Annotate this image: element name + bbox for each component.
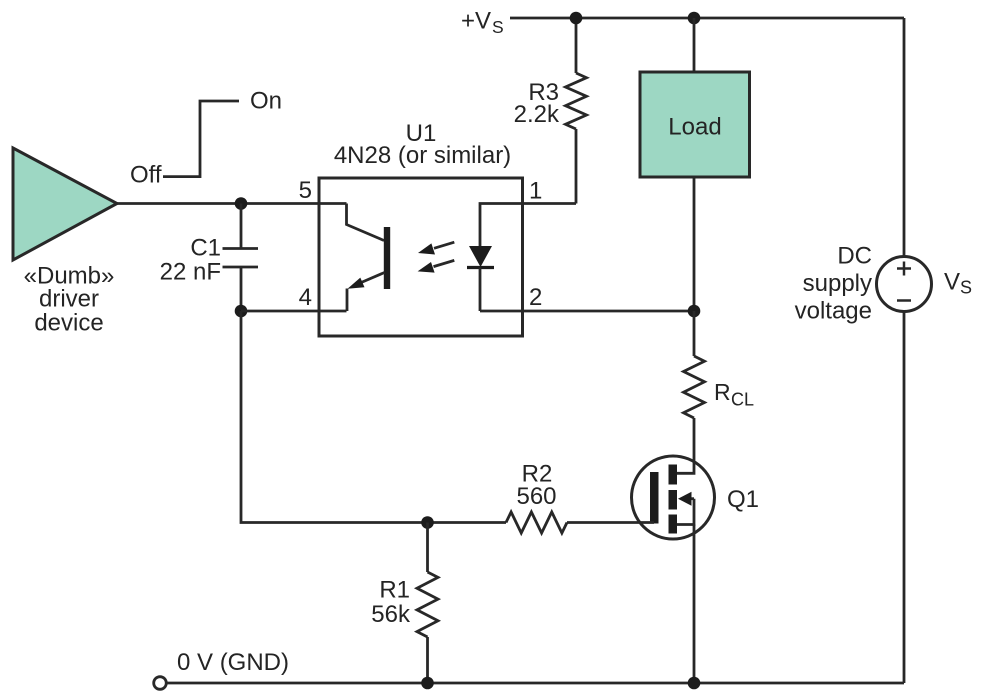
label R3 2.2k bbox=[514, 79, 560, 128]
svg-text:0 V (GND): 0 V (GND) bbox=[177, 649, 289, 676]
wire: MOSFET source to ground rail bbox=[693, 525, 696, 684]
wire: driver output to U1 pin 5 bbox=[117, 202, 347, 205]
svg-text:R: R bbox=[714, 379, 731, 405]
svg-text:On: On bbox=[250, 88, 282, 115]
source VS (DC supply) bbox=[877, 257, 932, 312]
wire: right supply branch bottom bbox=[903, 312, 906, 684]
svg-text:2.2k: 2.2k bbox=[514, 101, 560, 128]
svg-text:5: 5 bbox=[299, 177, 312, 204]
svg-text:S: S bbox=[960, 278, 972, 298]
capacitor C1 bbox=[223, 204, 259, 312]
node: gate / R1 junction bbox=[421, 516, 434, 529]
transistor Q1 (MOSFET) bbox=[632, 456, 715, 539]
On/Off step waveform bbox=[163, 101, 239, 177]
label C1 22 nF bbox=[160, 235, 221, 286]
label R1 56k bbox=[371, 577, 411, 629]
wire: right supply branch top bbox=[903, 18, 906, 257]
wire: ground rail bbox=[167, 682, 905, 685]
wire: R2 to gate bbox=[567, 521, 654, 524]
svg-text:C1: C1 bbox=[190, 235, 221, 262]
LED inside U1 (pin 1 to pin 2) bbox=[467, 204, 523, 312]
resistor RCL bbox=[684, 311, 705, 456]
resistor R1 bbox=[417, 523, 438, 684]
svg-text:Q1: Q1 bbox=[727, 486, 759, 513]
wire: U1 pin 2 to load/RCL junction bbox=[480, 310, 694, 313]
node: pin2 / load / RCL junction bbox=[688, 305, 701, 318]
svg-text:560: 560 bbox=[516, 483, 556, 510]
svg-text:22 nF: 22 nF bbox=[160, 259, 221, 286]
terminal: 0 V open circle bbox=[154, 677, 167, 690]
resistor R3 bbox=[523, 18, 587, 204]
svg-text:R1: R1 bbox=[379, 577, 410, 604]
svg-text:4N28 (or similar): 4N28 (or similar) bbox=[334, 142, 511, 169]
node: driver output / C1 junction bbox=[235, 197, 248, 210]
svg-text:driver: driver bbox=[39, 286, 99, 313]
wire: rail to load bbox=[693, 18, 696, 72]
wire: gate net from C1 junction down and right bbox=[241, 311, 506, 523]
node: rail / load junction bbox=[688, 12, 701, 25]
node: R1 / ground junction bbox=[421, 677, 434, 690]
label DC supply voltage bbox=[795, 243, 872, 325]
svg-text:V: V bbox=[944, 269, 960, 296]
node: source / ground junction bbox=[688, 677, 701, 690]
Load box bbox=[640, 72, 750, 177]
svg-text:+V: +V bbox=[461, 8, 491, 35]
driver triangle («Dumb» driver device) bbox=[13, 148, 117, 260]
label U1 4N28 (or similar) bbox=[334, 120, 511, 169]
wire: U1 pin 4 to C1 bottom junction bbox=[241, 310, 347, 313]
label R2 560 bbox=[516, 461, 556, 511]
svg-text:device: device bbox=[34, 310, 103, 337]
svg-text:1: 1 bbox=[529, 178, 542, 205]
svg-text:2: 2 bbox=[529, 284, 542, 311]
phototransistor inside U1 bbox=[347, 204, 391, 312]
svg-text:supply: supply bbox=[803, 270, 872, 297]
svg-text:voltage: voltage bbox=[795, 298, 872, 325]
svg-text:Load: Load bbox=[668, 114, 721, 141]
wire: load bottom to junction bbox=[693, 177, 696, 311]
svg-text:56k: 56k bbox=[371, 601, 411, 628]
light arrows (LED to transistor) bbox=[418, 242, 455, 272]
wire: +Vs top rail bbox=[510, 17, 904, 20]
node: C1 bottom junction bbox=[235, 305, 248, 318]
resistor R2 bbox=[506, 512, 567, 533]
node: rail / R3 junction bbox=[570, 12, 583, 25]
svg-text:4: 4 bbox=[299, 284, 312, 311]
IC U1 optocoupler package box bbox=[319, 178, 523, 336]
label: «Dumb» driver device bbox=[24, 263, 115, 337]
svg-text:CL: CL bbox=[731, 390, 754, 410]
svg-text:Off: Off bbox=[130, 162, 162, 189]
svg-text:DC: DC bbox=[837, 243, 872, 270]
svg-text:S: S bbox=[492, 17, 504, 37]
